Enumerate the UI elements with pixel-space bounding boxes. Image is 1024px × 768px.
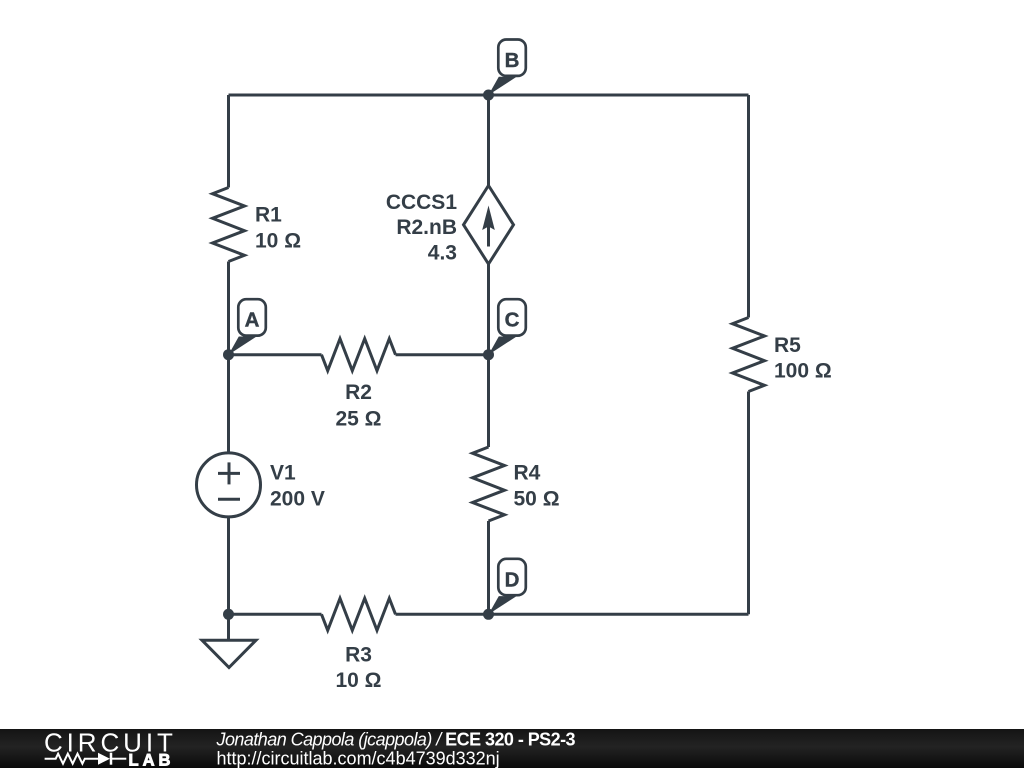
label V1 value bbox=[270, 461, 325, 510]
svg-text:10 Ω: 10 Ω bbox=[255, 230, 301, 253]
ground bbox=[202, 614, 256, 667]
CCCS1 diamond symbol with arrow bbox=[464, 186, 514, 265]
svg-text:R1: R1 bbox=[255, 204, 282, 227]
svg-text:R2.nB: R2.nB bbox=[396, 216, 457, 239]
svg-text:R2: R2 bbox=[345, 381, 372, 404]
svg-text:Jonathan Cappola (jcappola) /: Jonathan Cappola (jcappola) / ECE 320 - … bbox=[216, 730, 576, 750]
junction node B dot bbox=[483, 90, 494, 101]
wire R1 to node A bbox=[227, 262, 230, 355]
svg-text:200 V: 200 V bbox=[270, 487, 325, 510]
wire CCCS1 to node C bbox=[487, 264, 490, 355]
node label D bbox=[489, 559, 526, 615]
wire R4 to node D bbox=[487, 521, 490, 614]
svg-text:http://circuitlab.com/c4b4739d: http://circuitlab.com/c4b4739d332nj bbox=[217, 748, 500, 768]
wire left column upper (top wire to R1) bbox=[227, 95, 230, 188]
logo resistor squiggle and diode glyph bbox=[45, 753, 127, 765]
wire ground junction to R3 bbox=[229, 613, 322, 616]
wire node B down to CCCS1 bbox=[487, 95, 490, 186]
wire top from node over R1 to node B to top of R5 bbox=[229, 94, 749, 97]
label R2 value bbox=[335, 381, 381, 431]
svg-text:R3: R3 bbox=[345, 643, 372, 666]
wire node A down to V1 bbox=[227, 355, 230, 453]
junction node A dot bbox=[223, 349, 234, 360]
label R4 value bbox=[514, 461, 560, 510]
resistor R1 bbox=[213, 188, 245, 262]
svg-text:C: C bbox=[505, 309, 520, 332]
resistor R3 bbox=[322, 598, 396, 630]
node label C bbox=[489, 299, 526, 355]
voltage source V1 bbox=[197, 453, 261, 517]
logo LAB text bbox=[129, 751, 175, 768]
svg-text:50 Ω: 50 Ω bbox=[514, 488, 560, 511]
label R5 value bbox=[774, 334, 832, 382]
svg-text:CCCS1: CCCS1 bbox=[386, 191, 458, 214]
svg-text:B: B bbox=[505, 49, 520, 72]
svg-text:A: A bbox=[245, 309, 260, 332]
svg-text:R5: R5 bbox=[774, 334, 801, 357]
wire R3 to node D bbox=[396, 613, 489, 616]
node label A bbox=[229, 299, 266, 355]
svg-text:V1: V1 bbox=[270, 461, 296, 484]
junction node C dot bbox=[483, 349, 494, 360]
resistor R2 bbox=[322, 339, 396, 371]
label CCCS1 value bbox=[386, 191, 458, 264]
svg-text:100 Ω: 100 Ω bbox=[774, 360, 832, 383]
footer bar bbox=[0, 729, 1024, 768]
svg-text:25 Ω: 25 Ω bbox=[335, 408, 381, 431]
label R1 value bbox=[255, 204, 301, 253]
svg-text:R4: R4 bbox=[514, 461, 541, 484]
wire R2 to node C bbox=[396, 353, 489, 356]
node label B bbox=[489, 40, 526, 96]
label R3 value bbox=[335, 643, 381, 692]
wire right column upper bbox=[747, 95, 750, 318]
junction node D dot bbox=[483, 609, 494, 620]
wire node A to R2 bbox=[229, 353, 322, 356]
wire V1 to ground junction bbox=[227, 517, 230, 614]
svg-text:10 Ω: 10 Ω bbox=[335, 669, 381, 692]
wire node C down to R4 bbox=[487, 355, 490, 447]
footer attribution line bbox=[216, 730, 576, 750]
svg-text:D: D bbox=[505, 568, 520, 591]
junction ground node dot bbox=[223, 609, 234, 620]
svg-text:4.3: 4.3 bbox=[428, 241, 457, 264]
wire bottom node D to bottom of R5 bbox=[489, 613, 749, 616]
resistor R4 bbox=[473, 447, 505, 521]
logo CIRCUIT text bbox=[44, 727, 177, 757]
wire right column lower bbox=[747, 392, 750, 615]
resistor R5 bbox=[733, 318, 765, 392]
footer url line bbox=[217, 748, 500, 768]
svg-text:LAB: LAB bbox=[129, 751, 175, 768]
